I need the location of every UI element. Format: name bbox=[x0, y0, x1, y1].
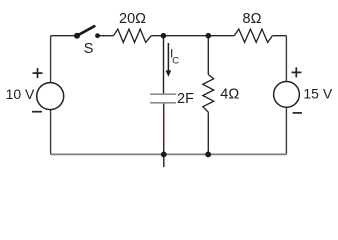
svg-text:C: C bbox=[172, 56, 179, 67]
svg-text:4Ω: 4Ω bbox=[220, 87, 239, 103]
svg-text:2F: 2F bbox=[177, 91, 194, 107]
svg-text:10 V: 10 V bbox=[6, 86, 35, 102]
svg-text:S: S bbox=[84, 41, 94, 57]
svg-text:8Ω: 8Ω bbox=[243, 11, 262, 27]
svg-text:15 V: 15 V bbox=[303, 85, 332, 101]
svg-text:20Ω: 20Ω bbox=[119, 11, 146, 27]
